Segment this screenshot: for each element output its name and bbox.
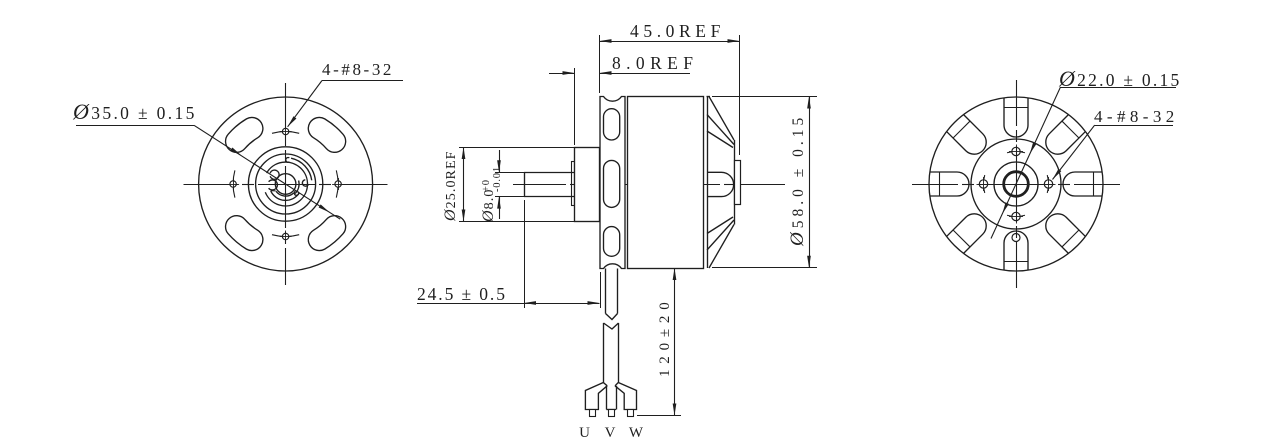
svg-text:W: W [629, 425, 644, 441]
svg-text:24.5 ± 0.5: 24.5 ± 0.5 [417, 284, 507, 304]
svg-text:-0.01: -0.01 [492, 166, 503, 192]
svg-text:Ø8.0: Ø8.0 [480, 189, 497, 223]
svg-text:+0: +0 [481, 179, 492, 192]
svg-text:120±20: 120±20 [657, 296, 673, 377]
svg-text:Ø35.0 ± 0.15: Ø35.0 ± 0.15 [72, 99, 197, 124]
svg-text:V: V [605, 425, 616, 441]
svg-text:Ø25.0REF: Ø25.0REF [442, 150, 459, 222]
svg-text:U: U [579, 425, 590, 441]
svg-text:45.0REF: 45.0REF [630, 21, 725, 41]
svg-text:Ø22.0 ± 0.15: Ø22.0 ± 0.15 [1058, 66, 1182, 91]
svg-text:8.0REF: 8.0REF [612, 53, 698, 73]
svg-text:4-#8-32: 4-#8-32 [322, 60, 394, 79]
svg-text:4-#8-32: 4-#8-32 [1094, 107, 1179, 126]
svg-text:Ø58.0 ± 0.15: Ø58.0 ± 0.15 [787, 114, 808, 247]
